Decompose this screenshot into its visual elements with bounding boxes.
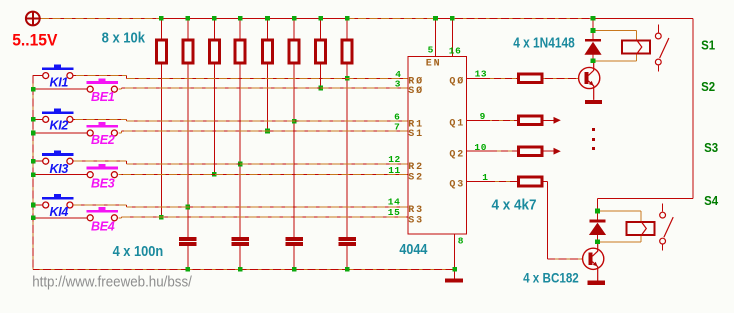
svg-text:4 x BC182: 4 x BC182 [523,270,579,286]
svg-text:14: 14 [388,197,401,208]
svg-text:http://www.freeweb.hu/bss/: http://www.freeweb.hu/bss/ [32,275,193,291]
svg-text:5..15V: 5..15V [12,32,57,50]
svg-text:S3: S3 [408,215,424,226]
svg-text:QØ: QØ [449,75,465,87]
svg-text:5: 5 [428,45,434,56]
svg-text:S2: S2 [408,173,424,184]
svg-text:10: 10 [474,142,487,153]
svg-text:S3: S3 [704,140,718,155]
svg-text:3: 3 [395,78,401,89]
svg-text:S2: S2 [701,79,715,94]
svg-text:4044: 4044 [399,242,427,258]
svg-text:BE2: BE2 [91,133,115,147]
svg-text:4 x 1N4148: 4 x 1N4148 [513,34,575,51]
svg-text:8 x 10k: 8 x 10k [102,29,146,46]
svg-text:Q1: Q1 [449,118,465,129]
svg-text:12: 12 [388,154,401,165]
svg-text:8: 8 [458,236,464,247]
svg-text:SØ: SØ [408,85,424,97]
svg-text:Q2: Q2 [449,149,465,160]
svg-text:BE4: BE4 [91,220,115,234]
svg-text:EN: EN [426,58,442,69]
svg-text:1: 1 [482,172,488,183]
svg-text:S1: S1 [701,38,715,53]
svg-text:R2: R2 [408,162,424,173]
svg-text:15: 15 [388,207,401,218]
svg-text:11: 11 [388,165,401,176]
svg-text:4 x 4k7: 4 x 4k7 [492,196,537,213]
svg-text:BE1: BE1 [91,90,115,104]
svg-text:Q3: Q3 [449,180,465,191]
svg-text:4 x 100n: 4 x 100n [113,243,164,260]
svg-text:16: 16 [449,45,462,56]
svg-text:7: 7 [394,122,400,133]
svg-text:KI4: KI4 [50,205,69,219]
svg-text:KI1: KI1 [50,76,69,90]
svg-text:13: 13 [475,69,488,80]
svg-text:KI3: KI3 [50,162,69,176]
svg-text:S1: S1 [408,129,424,140]
svg-text:S4: S4 [704,193,719,208]
svg-text:BE3: BE3 [91,176,115,190]
svg-text:9: 9 [480,111,486,122]
svg-text:KI2: KI2 [50,119,69,133]
